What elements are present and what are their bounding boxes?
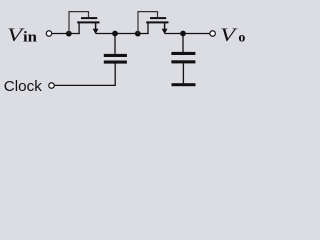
capacitor C2 top plate [171, 52, 195, 55]
capacitor C1 top lead [114, 34, 116, 55]
label Vo [220, 25, 245, 46]
capacitor C1 top plate [104, 54, 127, 57]
node C: Q2 gate-source junction [135, 31, 141, 37]
transistor Q2 drain arrowhead [162, 29, 168, 34]
svg-text:in: in [23, 30, 38, 46]
output terminal (Vo) [210, 31, 216, 37]
clock terminal [49, 83, 55, 89]
capacitor C1 bottom plate [104, 61, 127, 64]
label Vin [7, 25, 38, 46]
transistor Q2 gate plate [150, 17, 166, 19]
wire Q1 drain to Q2 source [96, 33, 149, 35]
transistor Q1 channel [77, 21, 99, 23]
ground bar [172, 83, 196, 86]
transistor Q2 source lead [147, 22, 149, 34]
capacitor C2 top lead [182, 34, 184, 53]
wire Q2 drain to output [165, 33, 210, 35]
node D: C2 top junction [180, 31, 186, 37]
wire input rail Vin to Q1 source [52, 33, 79, 35]
input terminal (Vin) [46, 31, 52, 37]
transistor Q1 gate plate [81, 17, 97, 19]
transistor Q1 gate feedback wire [69, 12, 89, 34]
svg-text:o: o [238, 31, 245, 46]
wire C1 bottom to clock [55, 63, 116, 85]
transistor Q1 drain arrowhead [93, 29, 99, 34]
transistor Q1 source lead [78, 22, 80, 34]
transistor Q2 gate feedback wire [138, 12, 158, 34]
capacitor C2 bottom plate [171, 60, 195, 63]
transistor Q2 channel [146, 21, 168, 23]
node A: Q1 gate-source junction [66, 31, 72, 37]
node B: C1 top junction [112, 31, 118, 37]
svg-text:Clock: Clock [4, 78, 42, 95]
transistor Q1 drain lead [95, 23, 97, 30]
transistor Q2 drain lead [164, 23, 166, 30]
capacitor C2 bottom lead [182, 63, 184, 83]
